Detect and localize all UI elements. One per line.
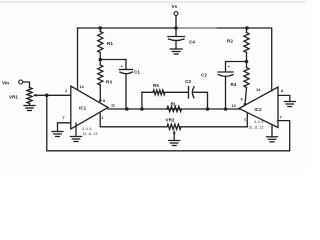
svg-text:IC1: IC1 bbox=[79, 106, 87, 111]
wire: VR2 wiper bbox=[173, 133, 175, 141]
svg-text:R3: R3 bbox=[106, 80, 112, 85]
ground: under C4 bbox=[170, 48, 182, 50]
wire: R5 branch riser bbox=[142, 92, 153, 109]
node: C2 drop junction bbox=[224, 107, 228, 111]
svg-text:R2: R2 bbox=[227, 39, 233, 44]
wire: top supply rail bbox=[78, 27, 248, 29]
svg-text:Vin: Vin bbox=[2, 81, 9, 86]
wire: VR2 feedback line IC1 pin1 to IC2 pin1 bbox=[100, 114, 167, 127]
svg-text:10, 11, 12: 10, 11, 12 bbox=[249, 126, 264, 130]
potentiometer VR2 bbox=[167, 124, 181, 129]
wire: VR1 wiper to IC1 input bbox=[35, 94, 71, 96]
node: R5 riser junction bbox=[140, 107, 144, 111]
wire: R5 to C3 bbox=[165, 91, 188, 93]
svg-text:RL: RL bbox=[171, 102, 177, 107]
potentiometer VR1 bbox=[27, 88, 32, 104]
svg-text:7: 7 bbox=[280, 116, 282, 120]
svg-text:C1: C1 bbox=[134, 70, 140, 75]
node: R1/R3/C1 junction bbox=[99, 58, 103, 62]
svg-text:14: 14 bbox=[256, 88, 261, 92]
svg-text:3, 4, 5: 3, 4, 5 bbox=[254, 120, 264, 124]
ground: VR2 wiper bbox=[169, 140, 180, 142]
svg-text:8: 8 bbox=[103, 99, 105, 103]
capacitor C4 bbox=[175, 28, 177, 36]
capacitor C2 bbox=[226, 62, 247, 72]
wire: IC1 pin 7 to ground bbox=[58, 123, 71, 131]
svg-text:R1: R1 bbox=[107, 41, 113, 46]
wire: C3 to output line bbox=[193, 92, 207, 109]
svg-text:R4: R4 bbox=[231, 82, 237, 87]
wire: Vin to VR1 bbox=[23, 82, 30, 88]
wire: R4 to IC2 pin 9 bbox=[245, 88, 247, 105]
wire: output line IC1 to IC2 bbox=[108, 108, 239, 110]
svg-text:IC2: IC2 bbox=[255, 107, 263, 112]
ground: under VR1 bbox=[29, 104, 31, 106]
node: wiper/feedback junction bbox=[45, 94, 49, 98]
resistor R2 bbox=[246, 28, 248, 33]
svg-text:VR1: VR1 bbox=[9, 95, 18, 100]
wire: rail corner to IC2 pin 14 bbox=[247, 28, 272, 91]
op-amp IC2 bbox=[239, 87, 278, 128]
svg-text:3, 4, 6,: 3, 4, 6, bbox=[82, 127, 92, 131]
svg-text:2: 2 bbox=[65, 89, 67, 93]
resistor RL bbox=[167, 106, 182, 111]
node: rail/R1 junction bbox=[99, 26, 103, 30]
svg-text:C2: C2 bbox=[201, 73, 207, 78]
node: rail/R2 corner junction bbox=[245, 26, 249, 30]
wire: rail drop to IC1 pin 14 bbox=[77, 28, 79, 90]
wire: R3 to IC1 pin 8 bbox=[99, 85, 101, 101]
svg-text:1: 1 bbox=[244, 118, 246, 122]
wire: IC2 ground pins stem bbox=[271, 125, 273, 137]
svg-text:14: 14 bbox=[80, 85, 85, 89]
svg-text:+: + bbox=[121, 65, 124, 69]
wire: Vs to rail bbox=[175, 16, 177, 28]
svg-text:Vs: Vs bbox=[172, 4, 178, 9]
scan border top bbox=[0, 1, 306, 3]
ground: IC1 ground pins bbox=[71, 136, 82, 138]
op-amp IC1 bbox=[71, 86, 108, 129]
resistor R5 bbox=[153, 90, 165, 95]
resistor R4 bbox=[246, 62, 248, 68]
node: R2/R4/C2 junction bbox=[245, 60, 249, 64]
svg-text:C3: C3 bbox=[185, 79, 191, 84]
svg-text:+: + bbox=[228, 65, 231, 69]
ground: IC2 ground pins bbox=[267, 136, 278, 138]
wire: rail gray segment bbox=[178, 27, 216, 29]
resistor R3 bbox=[99, 60, 101, 66]
svg-text:11: 11 bbox=[111, 104, 115, 108]
capacitor C3 bbox=[188, 87, 190, 99]
node: Vin terminal bbox=[19, 80, 23, 84]
svg-text:7: 7 bbox=[63, 116, 65, 120]
ground: IC2 pin 8 bbox=[284, 101, 295, 103]
svg-text:9: 9 bbox=[241, 98, 243, 102]
node: rail/Vs junction bbox=[174, 26, 178, 30]
svg-text:12, 11, 13: 12, 11, 13 bbox=[83, 132, 98, 136]
svg-text:1: 1 bbox=[102, 116, 104, 120]
node: C3 drop junction bbox=[206, 107, 210, 111]
wire: IC1 ground pins stem bbox=[75, 123, 77, 136]
node: C1/output junction bbox=[125, 107, 129, 111]
ground: IC1 pin 7 bbox=[52, 131, 63, 133]
svg-text:C4: C4 bbox=[189, 40, 195, 45]
svg-text:R5: R5 bbox=[153, 83, 159, 88]
capacitor C1 bbox=[100, 60, 126, 70]
wire: feedback bottom rail bbox=[47, 95, 290, 151]
svg-text:13: 13 bbox=[232, 104, 236, 108]
svg-text:8: 8 bbox=[281, 89, 283, 93]
svg-text:VR2: VR2 bbox=[166, 118, 175, 123]
resistor R1 bbox=[99, 28, 101, 32]
node: Vs terminal bbox=[174, 12, 178, 16]
wire: IC2 pin 8 to ground bbox=[278, 95, 290, 101]
